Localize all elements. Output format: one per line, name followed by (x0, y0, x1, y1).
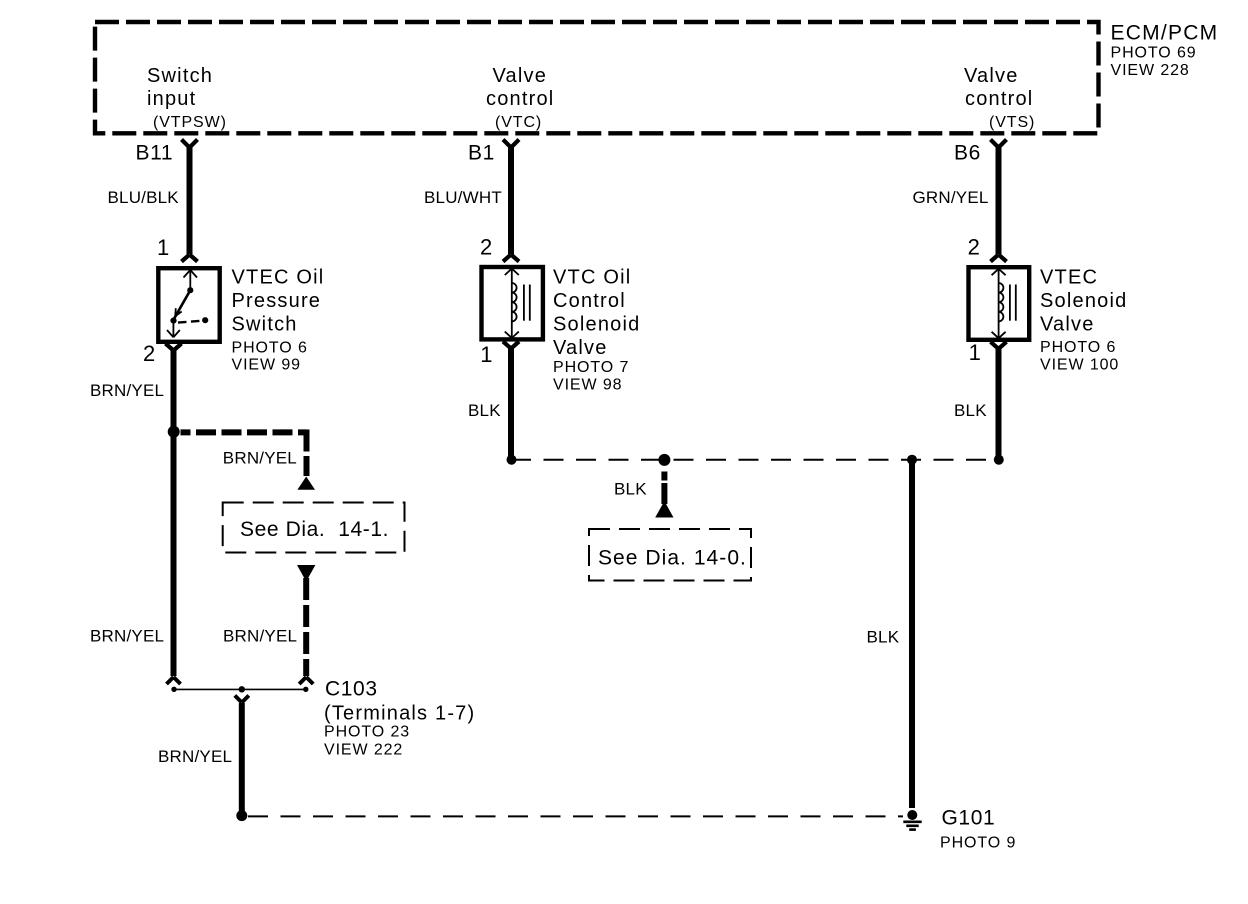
svg-text:input: input (147, 88, 196, 110)
svg-text:PHOTO 23: PHOTO 23 (324, 723, 410, 740)
svg-text:BRN/YEL: BRN/YEL (90, 381, 164, 400)
svg-text:1: 1 (969, 340, 981, 365)
svg-text:BLK: BLK (954, 401, 987, 420)
svg-text:PHOTO 7: PHOTO 7 (553, 359, 629, 376)
svg-text:Solenoid: Solenoid (553, 314, 640, 336)
svg-text:BRN/YEL: BRN/YEL (90, 627, 164, 646)
svg-text:2: 2 (968, 235, 980, 260)
svg-text:control: control (965, 88, 1033, 110)
svg-text:Valve: Valve (1040, 313, 1095, 335)
svg-text:(VTC): (VTC) (495, 114, 542, 131)
svg-text:2: 2 (143, 341, 155, 366)
svg-text:(VTS): (VTS) (989, 114, 1035, 131)
svg-text:VIEW 100: VIEW 100 (1040, 356, 1119, 373)
svg-text:BLK: BLK (614, 479, 647, 498)
svg-text:B6: B6 (954, 142, 981, 165)
svg-text:BLK: BLK (867, 627, 900, 646)
svg-text:BLU/BLK: BLU/BLK (108, 188, 180, 207)
svg-text:control: control (486, 88, 554, 110)
svg-text:(VTPSW): (VTPSW) (153, 114, 227, 131)
svg-text:B1: B1 (468, 142, 495, 165)
svg-text:Pressure: Pressure (232, 290, 322, 312)
svg-text:(Terminals 1-7): (Terminals 1-7) (324, 702, 475, 724)
svg-text:Switch: Switch (147, 65, 213, 87)
svg-text:1: 1 (157, 235, 169, 260)
svg-text:G101: G101 (942, 806, 996, 829)
svg-text:BLK: BLK (468, 401, 501, 420)
svg-text:BRN/YEL: BRN/YEL (158, 747, 232, 766)
svg-text:1: 1 (480, 342, 492, 367)
svg-text:VTEC: VTEC (1040, 266, 1098, 288)
svg-text:VIEW 98: VIEW 98 (553, 376, 622, 393)
svg-text:B11: B11 (136, 142, 174, 165)
svg-text:C103: C103 (325, 678, 378, 701)
svg-text:See Dia. 14-0.: See Dia. 14-0. (598, 547, 747, 570)
svg-text:BLU/WHT: BLU/WHT (424, 188, 502, 207)
svg-text:VIEW 222: VIEW 222 (324, 741, 403, 758)
svg-text:VTEC Oil: VTEC Oil (232, 266, 325, 288)
svg-text:PHOTO 9: PHOTO 9 (940, 835, 1016, 852)
svg-text:VIEW 228: VIEW 228 (1111, 62, 1190, 79)
svg-text:GRN/YEL: GRN/YEL (913, 188, 989, 207)
svg-text:See Dia. 14-1.: See Dia. 14-1. (240, 518, 389, 541)
svg-text:BRN/YEL: BRN/YEL (223, 449, 297, 468)
svg-text:Valve: Valve (964, 65, 1019, 87)
svg-text:Valve: Valve (493, 65, 548, 87)
svg-text:VTC Oil: VTC Oil (553, 267, 631, 289)
svg-text:BRN/YEL: BRN/YEL (223, 627, 297, 646)
svg-text:PHOTO 69: PHOTO 69 (1111, 45, 1197, 62)
svg-text:Control: Control (553, 290, 626, 312)
svg-text:Valve: Valve (553, 337, 608, 359)
svg-text:Solenoid: Solenoid (1040, 290, 1127, 312)
svg-text:Switch: Switch (232, 313, 298, 335)
svg-text:2: 2 (480, 235, 492, 260)
svg-text:PHOTO 6: PHOTO 6 (232, 340, 308, 357)
svg-text:VIEW 99: VIEW 99 (232, 357, 301, 374)
svg-text:ECM/PCM: ECM/PCM (1111, 22, 1219, 45)
svg-text:PHOTO 6: PHOTO 6 (1040, 339, 1116, 356)
